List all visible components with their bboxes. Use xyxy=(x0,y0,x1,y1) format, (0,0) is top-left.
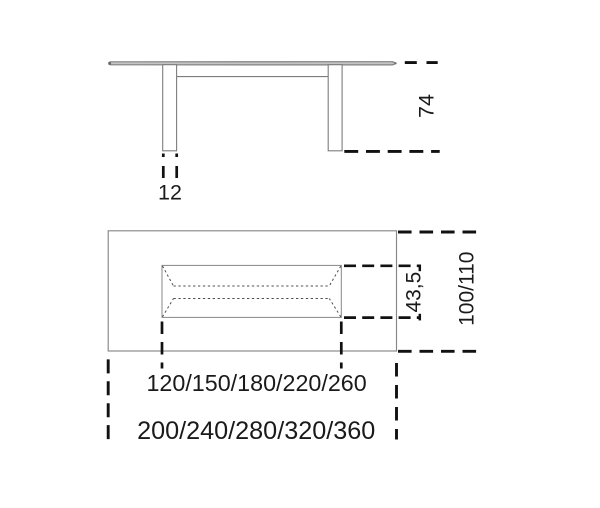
hidden edge: bottom-right diagonal xyxy=(329,299,341,317)
svg-text:12: 12 xyxy=(158,181,182,205)
dimension 74: bottom dashed reference line xyxy=(344,150,439,153)
extension line below plan: outer left xyxy=(107,359,110,439)
dimension label 74 xyxy=(415,94,439,118)
dimension label 43,5 xyxy=(403,272,426,313)
dimension 43,5: dimension line lower dash xyxy=(419,314,422,321)
left leg (side elevation) xyxy=(163,65,177,151)
dimension 74: top dashed reference line xyxy=(405,61,438,64)
svg-text:120/150/180/220/260: 120/150/180/220/260 xyxy=(146,370,366,396)
dimension label 100/110 xyxy=(455,252,478,326)
apron stretcher line between legs xyxy=(177,76,329,78)
leg width extension line left xyxy=(162,154,165,179)
dimension label 200/240/280/320/360 xyxy=(137,417,375,445)
svg-text:74: 74 xyxy=(415,94,439,118)
leg width extension line right xyxy=(175,154,178,179)
dimension 100/110: bottom dashed extension line xyxy=(398,350,476,353)
dimension 43,5: dimension line upper dash xyxy=(419,265,422,272)
extension line below plan: base left xyxy=(161,322,164,369)
tabletop outline (plan view) xyxy=(108,231,396,351)
right leg (side elevation) xyxy=(328,65,342,151)
dimension 43,5: lower dashed extension line xyxy=(344,316,421,319)
svg-text:200/240/280/320/360: 200/240/280/320/360 xyxy=(137,417,375,445)
svg-text:100/110: 100/110 xyxy=(455,252,478,326)
pedestal base plate (plan view) xyxy=(162,265,341,317)
tabletop slab (side elevation) xyxy=(108,62,396,65)
dimension 43,5: upper dashed extension line xyxy=(344,264,421,267)
hidden edge: bottom-left diagonal xyxy=(163,299,174,317)
hidden edge: top-left diagonal xyxy=(163,266,174,286)
svg-text:43,5: 43,5 xyxy=(403,272,426,313)
extension line below plan: base right xyxy=(340,322,343,369)
dimension 100/110: top dashed extension line xyxy=(398,231,476,234)
extension line below plan: outer right xyxy=(395,363,398,440)
dimension label 12 xyxy=(158,181,182,205)
dimension label 120/150/180/220/260 xyxy=(146,370,366,396)
hidden edge: top-right diagonal xyxy=(329,266,341,286)
hidden edge: upper column line xyxy=(174,285,330,287)
hidden edge: lower column line xyxy=(174,298,330,300)
